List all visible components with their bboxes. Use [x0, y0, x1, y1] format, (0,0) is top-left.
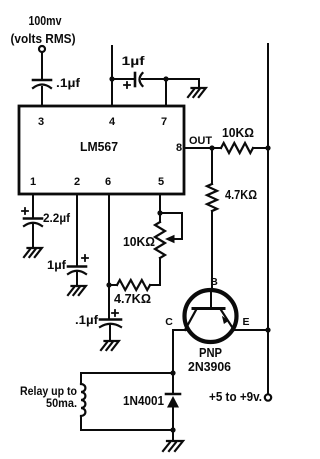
resistor R1 10K ohm [212, 143, 268, 153]
node junction pin4/C2 [109, 76, 114, 81]
node pin6/R4 [106, 282, 111, 287]
svg-text:7: 7 [161, 116, 167, 128]
wire input terminal to C1 [41, 52, 43, 78]
wire supply rail [267, 44, 269, 394]
ground (top right) [188, 88, 206, 97]
capacitor C5 .1uf (pin 6) [100, 310, 121, 340]
svg-text:1µf: 1µf [122, 54, 146, 68]
node relay bottom/diode [170, 427, 175, 432]
ground (pin 2) [68, 286, 86, 295]
svg-text:C: C [165, 316, 173, 328]
wire emitter to rail [234, 329, 268, 331]
svg-text:E: E [242, 316, 249, 328]
svg-text:5: 5 [158, 176, 164, 188]
wire C1 to pin 3 [41, 87, 43, 106]
wire wiper loop [160, 213, 182, 239]
ground (bottom) [163, 441, 183, 451]
wire to ground (bottom) [172, 430, 174, 441]
wire pin 8 OUT [184, 147, 212, 149]
ground (pin 6) [101, 341, 119, 350]
svg-text:LM567: LM567 [80, 140, 118, 154]
wire relay bottom [81, 429, 173, 431]
svg-text:OUT: OUT [189, 135, 212, 147]
relay coil K1 [81, 373, 85, 430]
svg-text:.1µf: .1µf [56, 76, 81, 90]
resistor R2 4.7K ohm (base) [207, 148, 217, 291]
svg-text:1µf: 1µf [47, 258, 67, 272]
wire pin 4 stub up [111, 46, 113, 106]
node collector/relay top [170, 370, 175, 375]
svg-text:2: 2 [74, 176, 80, 188]
wire node to ground (top right) [166, 79, 199, 88]
node rail/R1 [265, 145, 270, 150]
potentiometer R3 10K ohm [155, 222, 175, 258]
svg-text:3: 3 [38, 116, 44, 128]
wire pin 5 [159, 194, 161, 222]
transistor Q1 2N3906 PNP [185, 290, 237, 342]
svg-text:.1µf: .1µf [75, 313, 99, 327]
capacitor C3 2.2uf (pin 1) [22, 194, 42, 248]
svg-text:2.2µf: 2.2µf [43, 211, 71, 225]
svg-text:100mv: 100mv [29, 13, 63, 28]
svg-text:10KΩ: 10KΩ [123, 234, 155, 249]
node junction pin7 [163, 76, 168, 81]
capacitor C1 .1uf (input coupling) [33, 80, 51, 88]
svg-text:4.7KΩ: 4.7KΩ [114, 291, 151, 306]
svg-text:2N3906: 2N3906 [188, 360, 231, 374]
svg-text:6: 6 [105, 176, 111, 188]
wire junction to C2 [112, 78, 134, 80]
power terminal +5 to +9v [265, 394, 271, 400]
node emitter/rail [265, 327, 270, 332]
capacitor C2 1uf (pin4 bypass) [124, 73, 143, 88]
node OUT [209, 145, 214, 150]
wire relay top [81, 372, 173, 374]
wire C2 to pin7 node [142, 78, 166, 80]
wire pin 7 stub [165, 79, 167, 106]
resistor R4 4.7K ohm (horizontal) [109, 280, 150, 290]
svg-text:50ma.: 50ma. [46, 398, 77, 410]
op-amp U1 LM567 (IC box) [19, 106, 184, 194]
svg-text:+5 to +9v.: +5 to +9v. [209, 390, 262, 404]
svg-text:8: 8 [176, 142, 182, 154]
svg-text:Relay up to: Relay up to [20, 386, 77, 398]
capacitor C4 1uf (pin 2) [68, 194, 88, 286]
wire collector [173, 330, 188, 372]
svg-text:10KΩ: 10KΩ [222, 126, 254, 140]
node pin5/wiper [157, 210, 162, 215]
wire pin 6 [108, 194, 110, 318]
diode D1 1N4001 [166, 373, 180, 430]
input terminal J1 [39, 46, 45, 52]
svg-text:4: 4 [109, 116, 116, 128]
wire pot bottom [150, 258, 160, 285]
svg-text:(volts RMS): (volts RMS) [11, 31, 76, 46]
svg-text:1N4001: 1N4001 [123, 394, 164, 408]
svg-text:4.7KΩ: 4.7KΩ [225, 188, 257, 202]
svg-text:1: 1 [30, 176, 36, 188]
svg-text:B: B [210, 276, 218, 288]
svg-text:PNP: PNP [199, 346, 222, 360]
ground (pin 1) [24, 248, 42, 257]
